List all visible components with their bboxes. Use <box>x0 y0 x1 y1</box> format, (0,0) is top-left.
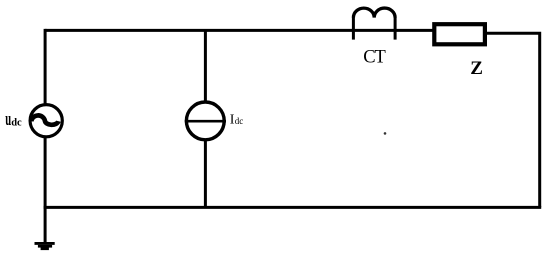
svg-text:CT: CT <box>363 48 385 68</box>
svg-text:Z: Z <box>470 58 483 79</box>
svg-text:dc: dc <box>235 116 244 126</box>
svg-text:dc: dc <box>11 117 22 128</box>
